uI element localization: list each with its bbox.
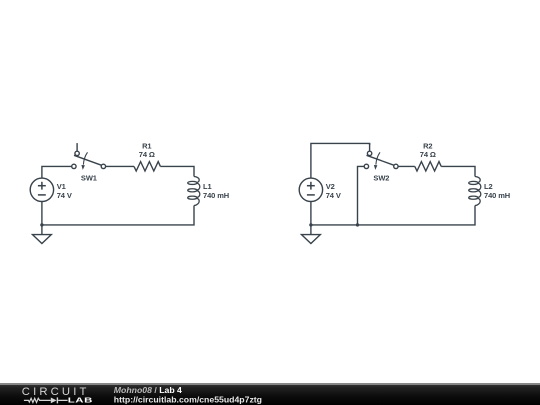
voltage source V1 (30, 178, 53, 201)
resistor R1 (134, 162, 160, 171)
svg-text:L2: L2 (484, 182, 493, 191)
svg-text:74 Ω: 74 Ω (139, 150, 155, 159)
wire SW1 to R1 (106, 165, 134, 167)
svg-text:SW2: SW2 (373, 173, 389, 182)
wire R1 to L1 (160, 166, 194, 176)
wire V2 top to switch SW2 top (311, 143, 370, 178)
svg-text:R2: R2 (423, 141, 432, 150)
inductor L1 (188, 177, 200, 206)
wire V1 bottom (41, 202, 43, 225)
svg-text:SW1: SW1 (81, 173, 97, 182)
svg-text:R1: R1 (142, 141, 151, 150)
svg-text:V2: V2 (326, 182, 335, 191)
svg-text:74 Ω: 74 Ω (420, 150, 436, 159)
node junction dot under V2 (309, 223, 312, 226)
ground circuit 1 (33, 225, 52, 244)
logo resistor-diode line (24, 398, 68, 402)
wire V1 top to switch (42, 166, 72, 178)
wire SW2 left terminal down to rail (358, 166, 365, 225)
wire L2 to bottom rail (311, 206, 475, 225)
switch SW2 (364, 143, 398, 170)
svg-text:V1: V1 (57, 182, 66, 191)
wire SW2 to R2 (398, 165, 415, 167)
svg-text:74 V: 74 V (326, 191, 341, 200)
switch SW1 (72, 143, 106, 170)
wire V2 bottom (310, 202, 312, 225)
voltage source V2 (299, 178, 322, 201)
resistor R2 (415, 162, 441, 171)
svg-text:http://circuitlab.com/cne55ud4: http://circuitlab.com/cne55ud4p7ztg (114, 394, 262, 404)
wire L1 to bottom rail (42, 206, 194, 225)
svg-text:740 mH: 740 mH (203, 191, 229, 200)
inductor L2 (469, 177, 481, 206)
svg-text:LAB: LAB (68, 396, 93, 405)
svg-text:L1: L1 (203, 182, 212, 191)
svg-text:74 V: 74 V (57, 191, 72, 200)
node junction dot circuit 1 (40, 223, 43, 226)
wire R2 to L2 (441, 166, 475, 176)
ground circuit 2 (302, 225, 321, 244)
node junction dot under SW2 (356, 223, 359, 226)
svg-text:740 mH: 740 mH (484, 191, 510, 200)
